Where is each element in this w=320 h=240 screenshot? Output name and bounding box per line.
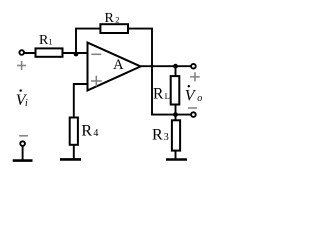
svg-text:R: R [105,11,115,26]
svg-text:4: 4 [93,128,98,139]
svg-text:R: R [81,122,92,139]
svg-text:A: A [113,57,124,73]
svg-text:2: 2 [115,14,119,24]
svg-text:R: R [153,85,164,102]
svg-text:L: L [165,91,170,101]
svg-text:1: 1 [48,36,52,46]
svg-text:3: 3 [164,132,169,143]
svg-text:R: R [152,127,163,144]
svg-text:i: i [25,98,28,109]
svg-text:o: o [197,93,202,104]
